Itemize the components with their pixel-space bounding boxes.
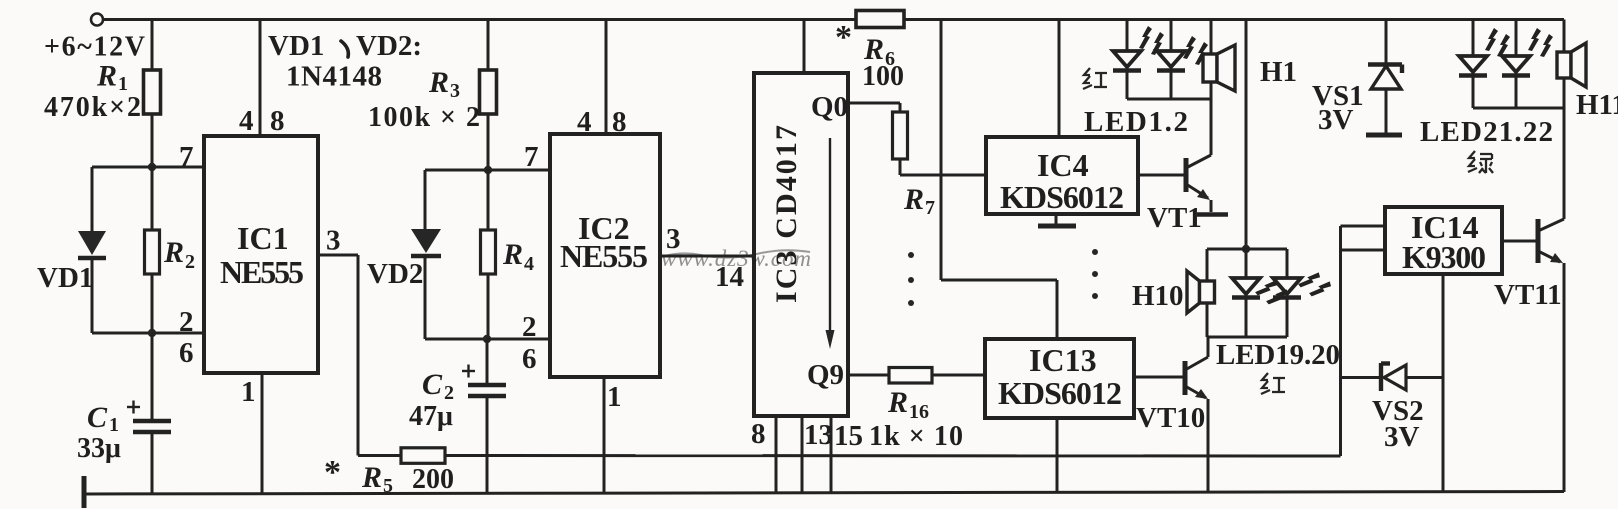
op IC2 NE555 box [550,134,660,377]
wire pin 8 IC3 to ground [775,416,778,493]
svg-text:2: 2 [522,311,537,343]
wire rail to R3 [487,20,490,71]
label IC13 [1029,342,1097,378]
wire pin 15 IC3 to ground [830,416,833,493]
svg-text:8: 8 [270,105,285,137]
label IC1 [237,220,289,256]
label 1k x 10 [869,421,963,452]
label VS2 [1372,395,1424,427]
svg-text:K9300: K9300 [1402,239,1486,275]
label IC2 [578,210,630,246]
label R4 [502,238,534,275]
wire VCC branch to IC13 [941,20,1057,340]
wire LED21-22 bottom rail [1473,107,1564,110]
label R3 [428,66,460,102]
label VD1 [37,262,93,294]
svg-text:100: 100 [862,61,904,92]
svg-text:7: 7 [925,197,935,219]
node E [1242,245,1250,253]
op IC13 KDS6012 box [985,339,1134,418]
wire VCC pins 4-8 IC2 [605,20,608,135]
wire pins 2-6 IC2 [487,338,550,341]
label 4 IC2 [577,106,592,138]
label LED19.20 [1216,339,1340,371]
svg-text:R: R [361,461,382,494]
svg-text:H10: H10 [1132,280,1184,312]
svg-text:R: R [502,238,523,271]
svg-text:7: 7 [179,141,194,173]
label H1 [1260,56,1297,88]
wire pin 1 IC2 to ground [603,377,606,493]
label 1 IC1 [241,376,256,408]
wire R1 to node A [151,114,154,167]
label IC14 [1411,209,1479,245]
svg-text:LED21.22: LED21.22 [1420,116,1553,148]
svg-text:3: 3 [666,223,681,255]
wire VCC pin 16 IC3 [803,20,806,74]
label 3V VS1 [1318,104,1354,136]
svg-text:H11: H11 [1576,89,1618,121]
ground stub IC4 [1038,214,1076,226]
wire pin 3 IC1 output [318,255,401,456]
label Q0 [811,91,848,123]
diode VD2 [411,170,441,339]
svg-text:1: 1 [241,376,256,408]
wire IC14 left pins [1341,226,1386,250]
label hong red channel10 [1261,373,1285,394]
label NE555 [220,254,304,290]
speaker H11 [1557,20,1586,109]
wire pin 1 IC1 to ground [261,373,264,493]
svg-text:33μ: 33μ [77,433,121,464]
svg-text:H1: H1 [1260,56,1297,88]
LED20 [1273,249,1333,337]
label 100 [862,61,904,92]
zener VS2 [1341,363,1444,391]
svg-text:8: 8 [751,418,766,450]
label 8 IC3 [751,418,766,450]
svg-text:C: C [422,368,443,401]
label LED1.2 [1084,106,1188,138]
transistor VT1 [1138,99,1228,215]
dots ellipsis right [1092,249,1098,299]
wire IC13 bottom to ground [1056,418,1059,492]
label 8 IC2 [612,106,627,138]
LED1 [1113,20,1164,100]
svg-text:*: * [835,19,852,56]
wire bottom ground rail [84,492,1564,495]
wire LED19-20 top rail [1207,248,1287,251]
label LED21.22 [1420,116,1553,148]
node C [484,166,492,174]
label 4 IC1 [239,105,254,137]
svg-text:NE555: NE555 [560,238,648,274]
resistor R16 [889,368,932,384]
wire Q0 IC3 to R7 [848,103,900,112]
label KDS6012 IC13 [998,375,1122,411]
label 100k x 2 [368,102,480,133]
wire pins 2-6 IC1 [152,332,204,335]
wire pin 13 IC3 to ground [801,416,804,493]
label 8 IC1 [270,105,285,137]
wire VCC pins 4-8 IC1 [259,20,262,137]
label +6~12V [44,32,145,63]
svg-text:R: R [96,60,117,93]
svg-text:1: 1 [607,381,622,413]
resistor R7 [893,112,908,159]
label 7 IC2 [524,141,539,173]
resistor R1 [144,70,161,114]
node A [148,163,156,171]
svg-text:Q9: Q9 [807,359,844,391]
dots ellipsis left [908,252,914,306]
wire H11 net to VT11 collector [1563,108,1566,219]
zener VS1 [1366,20,1402,136]
ground terminal bar [82,476,87,508]
label VD2 [367,258,423,290]
label K9300 IC14 [1402,239,1486,275]
wire top VCC rail right of R6 [904,18,1564,21]
label NE555 IC2 [560,238,648,274]
svg-text:IC13: IC13 [1029,342,1097,378]
label R5 [361,461,393,497]
transistor VT11 [1502,219,1564,492]
resistor R4 [481,170,496,339]
power terminal [91,14,103,26]
label VS1 [1312,80,1364,112]
label IC3 CD4017 [770,125,803,303]
label IC4 [1037,147,1089,183]
label 3V VS2 [1384,421,1420,453]
op IC3 CD4017 box [754,73,848,416]
svg-text:5: 5 [383,475,393,497]
label C1 [87,401,119,436]
wire pin 7 IC1 [92,166,204,169]
label lv green [1468,151,1493,173]
svg-text:Q0: Q0 [811,91,848,123]
svg-text:4: 4 [239,105,254,137]
label asterisk R6 [835,19,852,56]
label 47u [409,401,453,432]
note VD1 VD2 [268,30,422,62]
svg-text:R: R [903,183,924,216]
wire R3 to node C [487,114,490,170]
wire top VCC rail left of R6 [103,18,856,21]
svg-text:R: R [887,386,908,419]
svg-text:4: 4 [524,253,534,275]
op IC1 NE555 box [204,136,318,373]
label 3 IC1 [326,225,341,257]
note 1N4148 [286,61,382,93]
label R2 [163,236,195,273]
label VT10 [1136,402,1205,434]
wire R16 to IC13 input [932,374,985,377]
svg-text:4: 4 [577,106,592,138]
wire R5 output to IC14 net [445,226,1341,456]
svg-text:VT11: VT11 [1494,279,1562,311]
label H10 [1132,280,1184,312]
op IC4 KDS6012 box [986,137,1138,214]
svg-text:LED19.20: LED19.20 [1216,339,1340,371]
label 7 IC1 [179,141,194,173]
svg-text:200: 200 [412,464,454,495]
label VT1 [1147,202,1202,234]
label hong red channel1 [1083,68,1107,89]
svg-text:3V: 3V [1318,104,1354,136]
svg-text:13: 13 [804,419,833,451]
svg-text:3: 3 [450,80,460,102]
svg-text:VD1: VD1 [268,30,324,62]
label 2 IC1 [179,306,194,338]
wire IC14 bottom pin to ground [1442,274,1445,492]
label 15 IC3 [834,420,863,452]
resistor R6 [856,11,904,28]
svg-text:47μ: 47μ [409,401,453,432]
svg-text:VD2:: VD2: [356,30,422,62]
wire VCC to IC4 [1058,20,1061,138]
svg-text:1k × 10: 1k × 10 [869,421,963,452]
svg-text:16: 16 [909,401,929,423]
svg-text:3: 3 [326,225,341,257]
label R16 [887,386,929,423]
label 13 IC3 [804,419,833,451]
diode VD1 [78,167,106,333]
svg-text:6: 6 [522,343,537,375]
svg-text:3V: 3V [1384,421,1420,453]
LED22 [1502,20,1553,109]
wire VCC to LED19-20 net [1245,20,1248,250]
label Q9 [807,359,844,391]
svg-text:+6~12V: +6~12V [44,32,145,63]
svg-text:*: * [324,454,341,491]
svg-text:IC3 CD4017: IC3 CD4017 [770,125,803,303]
label 14 IC3 [715,261,744,293]
label asterisk R5 [324,454,341,491]
wire pin 3 IC2 to pin 14 IC3 [660,255,754,258]
op IC14 K9300 box [1385,207,1502,274]
wire VD1 to node B [92,332,152,335]
node B [148,329,156,337]
label 2 IC2 [522,311,537,343]
svg-text:VD1: VD1 [37,262,93,294]
svg-text:6: 6 [179,337,194,369]
wire R7 to IC4 input [900,159,986,175]
node D [483,335,491,343]
label C2 [422,368,454,404]
svg-text:2: 2 [185,251,195,273]
resistor R2 [145,167,160,333]
wire LED19-20 bottom rail [1207,336,1287,339]
svg-text:2: 2 [179,306,194,338]
svg-text:100k × 2: 100k × 2 [368,102,480,133]
svg-text:1N4148: 1N4148 [286,61,382,93]
label 33u [77,433,121,464]
wire LED bottoms to H1 [1127,98,1211,101]
svg-text:VT1: VT1 [1147,202,1202,234]
label H11 [1576,89,1618,121]
resistor R3 [480,70,497,114]
label 1 IC2 [607,381,622,413]
svg-text:IC4: IC4 [1037,147,1089,183]
svg-text:R: R [428,66,449,99]
watermark [661,246,811,271]
wire pin 7 IC2 [425,169,550,172]
wire Q9 IC3 to R16 [848,374,889,377]
capacitor C1 [127,333,171,493]
svg-text:14: 14 [715,261,744,293]
wire VD2 to node D [425,338,487,341]
speaker H10 [1187,249,1215,337]
svg-text:KDS6012: KDS6012 [1000,179,1124,215]
label R6 [863,33,895,70]
label 6 IC2 [522,343,537,375]
svg-text:7: 7 [524,141,539,173]
label R1 [96,60,128,96]
arrow inside IC3 [826,138,835,349]
svg-text:KDS6012: KDS6012 [998,375,1122,411]
speaker H1 [1203,20,1235,156]
svg-text:R: R [163,236,184,269]
label 470k x2 [44,92,141,123]
svg-text:8: 8 [612,106,627,138]
label 200 [412,464,454,495]
svg-text:VD2: VD2 [367,258,423,290]
transistor VT10 [1134,337,1208,493]
label KDS6012 IC4 [1000,179,1124,215]
svg-text:15: 15 [834,420,863,452]
LED2 [1157,20,1208,100]
svg-text:VT10: VT10 [1136,402,1205,434]
label R7 [903,183,935,219]
svg-text:C: C [87,401,108,434]
LED19 [1232,249,1290,337]
svg-text:NE555: NE555 [220,254,304,290]
svg-text:IC1: IC1 [237,220,289,256]
LED21 [1459,20,1510,109]
wire rail to R1 [151,20,154,71]
capacitor C2 [462,339,506,493]
label 3 IC2 [666,223,681,255]
label 6 IC1 [179,337,194,369]
resistor R5 [401,448,445,464]
label VT11 [1494,279,1562,311]
